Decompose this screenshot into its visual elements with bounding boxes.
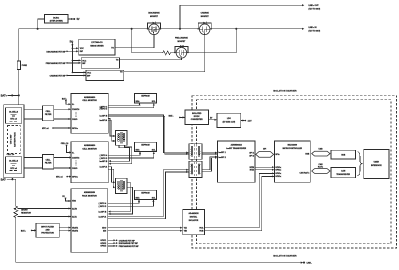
svg-text:INPUT FILTER: INPUT FILTER <box>41 227 54 229</box>
svg-text:5V: 5V <box>70 41 73 44</box>
svg-text:SDO: SDO <box>102 228 107 230</box>
svg-text:C16/V16: C16/V16 <box>72 109 79 111</box>
svg-text:DC/DC: DC/DC <box>53 17 60 19</box>
node 3.3V stub <box>241 120 245 122</box>
svg-text:MAX32690: MAX32690 <box>288 144 297 147</box>
DC/DC (step-down) converter <box>44 15 68 23</box>
svg-text:isoSPI B: isoSPI B <box>100 161 108 163</box>
LDO box <box>217 113 241 127</box>
svg-text:RESISTOR: RESISTOR <box>21 213 31 215</box>
wire isolator outputs up to MCU GPIO <box>204 173 274 227</box>
svg-text:ADBMS2950: ADBMS2950 <box>84 191 95 194</box>
wire pack to cell filter 1 <box>24 109 42 119</box>
wire monitor2 GPIO to eeprom2 SDA/SCL <box>108 152 140 155</box>
svg-text:USB: USB <box>341 155 346 157</box>
svg-text:SDA: SDA <box>136 196 141 199</box>
svg-text:FILTER: FILTER <box>45 114 52 116</box>
wire monitor1 GPIO to eeprom1 SCL <box>108 104 154 108</box>
svg-text:ALTA: ALTA <box>72 215 77 218</box>
brace <box>358 152 362 176</box>
svg-text:ISOLATION BARRIER: ISOLATION BARRIER <box>273 89 297 92</box>
svg-text:MOSFET: MOSFET <box>150 16 159 18</box>
wire shunt sense lines to pack monitor <box>14 208 16 210</box>
svg-text:TRANSCEIVER: TRANSCEIVER <box>336 173 350 176</box>
wire: stub to DC/DC input <box>38 19 45 29</box>
wire monitor1 isoSPI B to transformer A <box>108 115 188 153</box>
svg-text:DISCHARGE FET INP: DISCHARGE FET INP <box>119 242 139 245</box>
wire monitor1 GPIO to eeprom1 SDA <box>108 104 139 106</box>
CAN transceiver box <box>331 167 355 177</box>
svg-text:CHARGE: CHARGE <box>201 12 210 15</box>
wire filter1 to monitor1 <box>54 108 71 110</box>
svg-text:isoSPI A: isoSPI A <box>100 119 108 122</box>
resistor R precharge <box>162 51 172 55</box>
svg-text:INTA: INTA <box>250 169 255 172</box>
fuse F1 <box>17 61 20 69</box>
svg-text:NTC x4: NTC x4 <box>10 118 17 121</box>
gate driver U1 NMOS driver <box>79 39 115 55</box>
svg-text:VCC: VCC <box>80 48 85 50</box>
svg-text:SDA: SDA <box>136 100 141 103</box>
svg-text:GPIO3: GPIO3 <box>100 246 106 248</box>
bottom rail LINK- <box>16 262 303 264</box>
shunt resistor <box>14 206 18 219</box>
svg-text:GPIOs: GPIOs <box>72 128 78 130</box>
svg-text:VBAT2: VBAT2 <box>72 229 78 232</box>
wire: LINK+ OUT line <box>180 5 304 29</box>
wire transceiver INT to MCU GPIO <box>255 166 274 168</box>
cell filter 1 <box>43 106 54 121</box>
svg-text:GPIOx: GPIOx <box>275 176 282 178</box>
eeprom U7 <box>135 142 157 151</box>
USB box <box>331 150 355 159</box>
svg-text:SDA: SDA <box>136 148 141 151</box>
cell monitor U4 ADBMS6830 #1 <box>71 94 108 134</box>
svg-text:BAT-: BAT- <box>1 178 7 181</box>
svg-text:CAN: CAN <box>318 163 323 166</box>
gate driver U3 NMOS driver <box>86 70 124 80</box>
svg-text:LINK+ OUT: LINK+ OUT <box>309 5 320 7</box>
svg-text:EEPROM: EEPROM <box>141 96 150 98</box>
svg-text:CHARGE FET INP: CHARGE FET INP <box>119 239 136 242</box>
wire T2 to pack monitor isoSPI B <box>109 182 131 211</box>
svg-text:SPI 2: SPI 2 <box>249 155 254 157</box>
svg-text:ISOLATED: ISOLATED <box>192 112 202 115</box>
svg-text:GPIOx: GPIOx <box>275 173 282 175</box>
wire: TG2 to precharge gate <box>120 58 182 60</box>
svg-text:CELL: CELL <box>46 159 52 161</box>
svg-text:isoSPI 2: isoSPI 2 <box>218 157 225 159</box>
svg-text:16-CELLS: 16-CELLS <box>9 111 19 113</box>
svg-text:PRE-CHARGE: PRE-CHARGE <box>175 37 188 40</box>
svg-text:C0/V0: C0/V0 <box>72 168 77 170</box>
svg-text:CAN Rx/Tx: CAN Rx/Tx <box>300 172 311 175</box>
cell filter 2 <box>43 154 54 169</box>
svg-text:FUSE: FUSE <box>22 65 28 67</box>
svg-text:NTC x4: NTC x4 <box>42 127 49 130</box>
svg-text:EEPROM: EEPROM <box>141 192 150 194</box>
svg-text:C0/V0: C0/V0 <box>72 119 77 121</box>
svg-text:MOSFET: MOSFET <box>177 41 186 43</box>
svg-text:GPIOx: GPIOx <box>275 170 282 172</box>
svg-text:(72V TO 96V): (72V TO 96V) <box>309 31 321 33</box>
transistor Q1 discharge MOSFET <box>147 12 162 35</box>
svg-text:ADBMS6822: ADBMS6822 <box>231 144 242 147</box>
svg-text:ADBMS6830: ADBMS6830 <box>84 144 95 147</box>
cell monitor U6 ADBMS6830 #2 <box>71 142 108 183</box>
transformer B <box>189 161 202 177</box>
wire transformer A to transceiver <box>202 152 217 154</box>
svg-text:PROTECTION: PROTECTION <box>41 233 54 235</box>
svg-text:BAT+: BAT+ <box>1 95 8 98</box>
svg-text:ALTB: ALTB <box>72 207 78 210</box>
digital isolator U10 ADuM262N <box>183 210 205 235</box>
svg-text:BATTERY PACK: BATTERY PACK <box>14 132 17 147</box>
transformer T2 <box>116 178 128 193</box>
user interface box <box>364 150 389 179</box>
isoSPI transceiver U11 ADBMS6822 <box>217 141 255 182</box>
svg-text:ADuM262N: ADuM262N <box>189 212 200 215</box>
svg-text:VOA: VOA <box>199 227 204 230</box>
isolation barrier outer dashed rect <box>192 96 397 248</box>
svg-text:FILTER: FILTER <box>45 162 52 164</box>
svg-text:SDI: SDI <box>103 231 107 233</box>
wire filter2 to monitor2 <box>54 157 71 159</box>
svg-text:5V: 5V <box>77 18 80 21</box>
svg-text:GPIO1: GPIO1 <box>100 240 106 242</box>
transistor Q3 pre-charge MOSFET <box>174 37 189 59</box>
svg-text:DISCHARGE: DISCHARGE <box>148 12 160 15</box>
microcontroller U12 MAX32690 <box>274 141 310 182</box>
svg-text:NMOS DRIVER: NMOS DRIVER <box>90 45 104 47</box>
svg-text:PRECHARGE FET INP: PRECHARGE FET INP <box>119 245 140 248</box>
svg-text:ISOLATION BARRIER: ISOLATION BARRIER <box>273 254 297 257</box>
svg-text:ISOLATOR: ISOLATOR <box>189 219 199 222</box>
svg-text:USER: USER <box>374 162 380 164</box>
wire: precharge branch <box>132 29 162 53</box>
input filter and protection box <box>36 223 59 237</box>
pack monitor U9 ADBMS2950 <box>71 189 108 253</box>
svg-text:USB: USB <box>305 153 310 155</box>
svg-text:MICROCONTROLLER: MICROCONTROLLER <box>283 148 303 150</box>
gate driver U2 NMOS driver <box>81 58 119 69</box>
svg-text:VDD: VDD <box>72 201 77 203</box>
eeprom U5 <box>135 94 157 104</box>
svg-text:isoSPI A: isoSPI A <box>100 166 108 169</box>
wire pack monitor GPIO to eeprom3 SDA/SCL <box>108 200 139 203</box>
svg-text:{ GPIO 5: { GPIO 5 <box>100 158 108 160</box>
svg-text:CELL 16: CELL 16 <box>7 154 15 156</box>
isolated DC/DC converter <box>185 110 208 125</box>
wire pack monitor SPI to digital isolator <box>108 227 182 229</box>
svg-text:isoSPI B: isoSPI B <box>100 115 108 117</box>
wire: VCC stubs <box>72 47 78 49</box>
svg-text:isoSPI A: isoSPI A <box>99 215 107 218</box>
wire monitor1 isoSPI A to transformer T1 <box>108 118 115 136</box>
svg-text:GPIOs: GPIOs <box>72 177 78 179</box>
svg-text:CONVERTER: CONVERTER <box>191 119 204 121</box>
svg-text:{ GPIO 4: { GPIO 4 <box>99 202 108 205</box>
svg-text:DISCHARGE FET INP: DISCHARGE FET INP <box>46 50 66 53</box>
svg-text:isoSPI 1: isoSPI 1 <box>218 152 225 154</box>
wire BAT- down to bottom rail <box>15 179 17 262</box>
svg-text:USB: USB <box>319 149 324 151</box>
svg-text:INTERFACE: INTERFACE <box>371 164 382 167</box>
svg-text:LTC7060-CO: LTC7060-CO <box>91 42 103 44</box>
svg-text:MOSFET: MOSFET <box>201 16 210 18</box>
svg-text:DIGITAL: DIGITAL <box>190 215 198 218</box>
svg-text:CELL MONITOR: CELL MONITOR <box>82 100 97 102</box>
svg-text:CELL MONITOR: CELL MONITOR <box>82 148 97 150</box>
wire filter to VBAT pins <box>59 227 70 229</box>
svg-text:SHUNT: SHUNT <box>21 210 28 212</box>
svg-text:isoSPI B: isoSPI B <box>99 211 107 213</box>
svg-text:VBAT1: VBAT1 <box>72 226 78 229</box>
svg-text:ADBMS6830: ADBMS6830 <box>84 96 95 99</box>
svg-text:SPI 1: SPI 1 <box>249 152 254 154</box>
svg-text:(STEP-DOWN): (STEP-DOWN) <box>50 21 63 23</box>
svg-text:EEPROM: EEPROM <box>141 144 150 146</box>
svg-text:LDO: LDO <box>227 118 232 120</box>
svg-text:16-CELLS: 16-CELLS <box>9 161 19 163</box>
eeprom U8 <box>135 190 157 199</box>
wire: TG3 to charge gate <box>124 35 205 72</box>
svg-text:NTC x4: NTC x4 <box>10 167 17 170</box>
svg-text:VCC: VCC <box>87 72 92 74</box>
wire pack monitor GPIO FET stubs <box>108 239 116 241</box>
svg-text:72V to 96V: 72V to 96V <box>10 134 13 144</box>
svg-text:C16/V16: C16/V16 <box>72 157 79 159</box>
svg-text:CAN: CAN <box>341 170 346 173</box>
wire: 5V output stub <box>68 18 73 20</box>
svg-text:SPI: SPI <box>263 149 267 151</box>
battery 16-cells top <box>5 108 21 124</box>
battery pack outer box <box>4 105 24 178</box>
svg-text:{ GPIO 5: { GPIO 5 <box>99 206 107 208</box>
svg-text:PRECHARGE FET INP: PRECHARGE FET INP <box>46 62 67 65</box>
wire monitor2 isoSPI A to transformer T2 <box>108 167 115 183</box>
wire: TG1 to discharge gate <box>115 35 154 48</box>
wire pack to cell filter 2 <box>24 158 42 169</box>
wire transformer B to transceiver <box>202 157 217 170</box>
wire T1 to monitor2 isoSPI B <box>109 145 130 161</box>
battery pack dashed middle <box>8 126 21 154</box>
svg-text:CHARGE FET INP: CHARGE FET INP <box>50 74 67 77</box>
svg-text:{ GPIO 4: { GPIO 4 <box>100 154 109 157</box>
transformer A <box>189 144 202 160</box>
svg-text:PACK MONITOR: PACK MONITOR <box>82 194 97 197</box>
transistor Q2 charge MOSFET <box>197 12 212 35</box>
svg-text:AND: AND <box>46 229 51 232</box>
svg-text:VOB: VOB <box>199 231 204 233</box>
wire pack monitor isoSPI A to transformer B <box>108 170 188 217</box>
isolation barrier inner dashed rect <box>197 100 392 244</box>
svg-text:LINK+ IN: LINK+ IN <box>309 27 318 29</box>
svg-text:GPIO2: GPIO2 <box>100 243 106 245</box>
transformer T1 <box>116 131 127 146</box>
svg-text:(72V TO 96V): (72V TO 96V) <box>309 8 321 10</box>
svg-text:NTC x4: NTC x4 <box>56 176 63 179</box>
svg-text:LINK-: LINK- <box>307 263 312 265</box>
wire: BAT+ top rail y=29.3 <box>19 29 304 96</box>
battery 16-cells bottom <box>5 157 21 174</box>
svg-text:(5V AND 3.3V): (5V AND 3.3V) <box>223 121 236 124</box>
svg-text:DC/DC: DC/DC <box>194 116 201 118</box>
svg-text:isoSPI TRANSCEIVER: isoSPI TRANSCEIVER <box>226 147 246 150</box>
svg-text:CELL: CELL <box>46 111 52 113</box>
